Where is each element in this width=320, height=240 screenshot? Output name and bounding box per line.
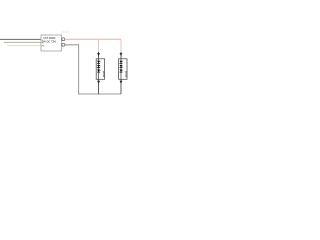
terminal - (bottom output) bbox=[62, 43, 65, 46]
LED D1 bbox=[97, 61, 101, 64]
wire drop to module 2 (pink) bbox=[120, 39, 122, 52]
wire return (gray, - bus) bbox=[65, 45, 121, 94]
LED D3 bbox=[97, 70, 101, 73]
arrow current direction module 1 bottom bbox=[97, 81, 100, 84]
arrow current direction module 2 top bbox=[120, 53, 123, 56]
wire module 1 bottom lead bbox=[98, 79, 100, 94]
module M2 internal conductor bbox=[120, 59, 122, 79]
wire module 2 bottom lead bbox=[120, 79, 122, 94]
LED driver U1 box bbox=[41, 35, 62, 51]
wire +24V (pink, top bus) bbox=[65, 38, 121, 40]
LED D5 bbox=[120, 65, 124, 68]
module M1 internal conductor bbox=[98, 59, 100, 79]
arrow current direction module 2 bottom bbox=[120, 81, 123, 84]
terminal + (top output) bbox=[62, 38, 65, 41]
module M1 type label (rotated) bbox=[103, 71, 105, 76]
wire L (mains live, dark) bbox=[0, 38, 41, 40]
wire drop to module 1 (pink) bbox=[98, 39, 100, 52]
svg-text:24V DC: 24V DC bbox=[62, 31, 71, 34]
svg-text:CTZ 44000: CTZ 44000 bbox=[43, 36, 56, 40]
wire PE (protective earth, pale yellow-green) bbox=[7, 45, 41, 47]
arrow current direction module 1 top bbox=[97, 53, 100, 56]
svg-text:24V DC 72W: 24V DC 72W bbox=[42, 39, 57, 43]
wire module 2 top lead bbox=[120, 52, 122, 59]
LED D2 bbox=[97, 65, 101, 68]
module M2 type label (rotated) bbox=[125, 71, 127, 76]
LED D6 bbox=[120, 70, 124, 73]
LED module M2 box bbox=[119, 59, 127, 80]
wire N (mains neutral, gray) bbox=[4, 41, 41, 43]
wire module 1 top lead bbox=[98, 52, 100, 59]
LED module M1 box bbox=[96, 59, 104, 80]
LED D4 bbox=[120, 61, 124, 64]
